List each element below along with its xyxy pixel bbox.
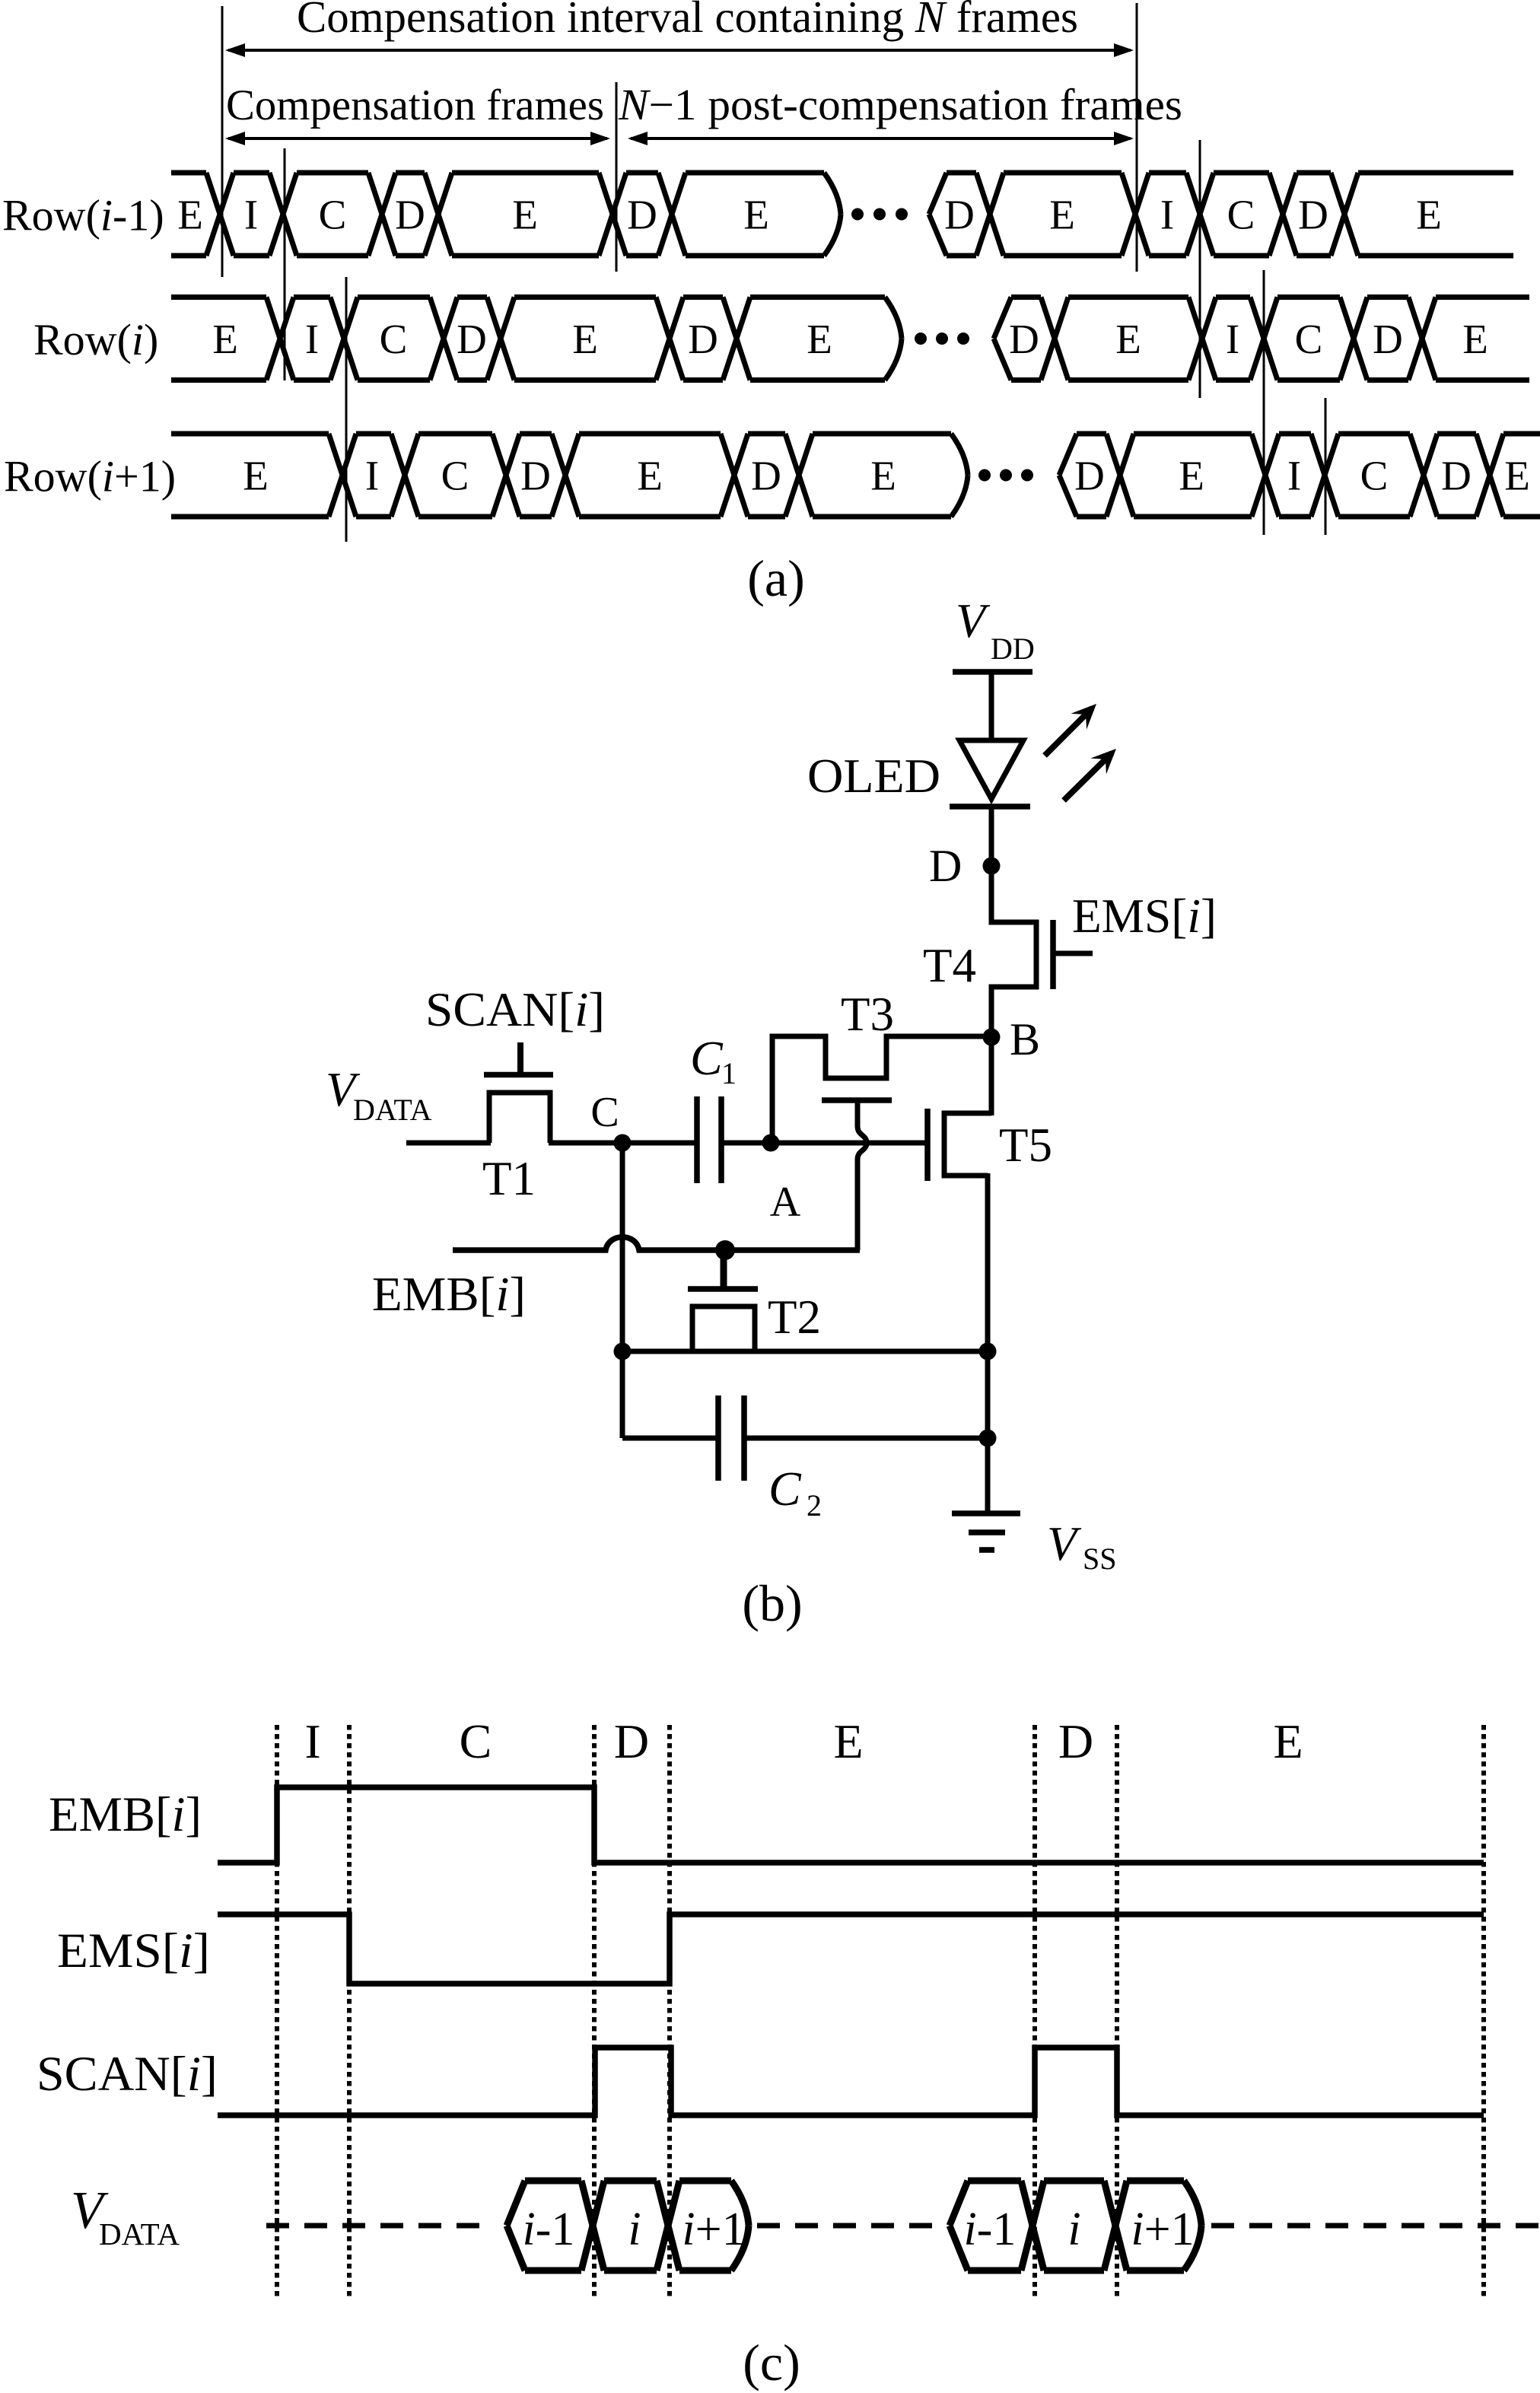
svg-text:EMS[i]: EMS[i] (57, 1924, 210, 1978)
svg-text:D: D (944, 192, 975, 238)
svg-text:T2: T2 (768, 1290, 821, 1344)
svg-text:DD: DD (991, 632, 1035, 666)
svg-text:I: I (1287, 453, 1301, 499)
svg-text:E: E (512, 192, 538, 238)
svg-text:I: I (365, 453, 379, 499)
svg-text:D: D (1298, 192, 1328, 238)
svg-text:C: C (768, 1462, 802, 1516)
svg-text:E: E (1416, 192, 1442, 238)
svg-text:D: D (520, 453, 551, 499)
svg-text:T5: T5 (999, 1119, 1052, 1172)
svg-text:(b): (b) (742, 1574, 802, 1632)
svg-text:C: C (380, 316, 408, 362)
svg-text:D: D (1058, 1714, 1093, 1768)
svg-text:D: D (614, 1714, 649, 1768)
svg-text:T4: T4 (923, 939, 976, 992)
svg-text:i-1: i-1 (523, 2204, 575, 2255)
svg-text:E: E (743, 192, 769, 238)
svg-text:I: I (244, 192, 258, 238)
svg-text:EMB[i]: EMB[i] (372, 1267, 526, 1321)
svg-text:E: E (637, 453, 663, 499)
svg-text:D: D (457, 316, 487, 362)
svg-text:I: I (1226, 316, 1239, 362)
svg-text:SCAN[i]: SCAN[i] (425, 982, 605, 1036)
svg-text:SS: SS (1083, 1542, 1117, 1576)
svg-text:i: i (1067, 2204, 1080, 2255)
svg-text:E: E (243, 453, 269, 499)
svg-text:E: E (1504, 453, 1530, 499)
svg-text:E: E (177, 192, 203, 238)
svg-text:A: A (770, 1179, 801, 1226)
svg-text:i: i (628, 2204, 641, 2255)
svg-text:D: D (627, 192, 657, 238)
svg-text:E: E (1462, 316, 1488, 362)
svg-text:E: E (1273, 1714, 1303, 1768)
svg-text:I: I (305, 316, 319, 362)
svg-text:i-1: i-1 (964, 2204, 1017, 2255)
svg-text:C: C (441, 453, 469, 499)
svg-text:E: E (572, 316, 598, 362)
svg-text:C: C (319, 192, 347, 238)
svg-text:DATA: DATA (99, 2216, 180, 2251)
svg-text:SCAN[i]: SCAN[i] (37, 2047, 218, 2102)
svg-text:I: I (1160, 192, 1174, 238)
svg-text:Row(i): Row(i) (33, 315, 158, 364)
svg-text:D: D (1441, 453, 1472, 499)
svg-text:E: E (212, 316, 238, 362)
svg-text:D: D (1009, 316, 1039, 362)
svg-text:Compensation interval containi: Compensation interval containing N frame… (297, 0, 1078, 42)
svg-text:(a): (a) (747, 549, 804, 607)
svg-text:E: E (1049, 192, 1075, 238)
svg-text:E: E (1115, 316, 1141, 362)
svg-text:E: E (870, 453, 896, 499)
svg-text:EMB[i]: EMB[i] (49, 1787, 202, 1842)
svg-text:N−1 post-compensation frames: N−1 post-compensation frames (618, 80, 1182, 129)
svg-text:C: C (1227, 192, 1255, 238)
svg-text:T3: T3 (841, 988, 894, 1041)
svg-text:C: C (1295, 316, 1323, 362)
svg-text:(c): (c) (743, 2334, 800, 2391)
svg-text:Compensation frames: Compensation frames (226, 81, 604, 129)
svg-text:C: C (590, 1089, 619, 1136)
svg-text:C: C (1360, 453, 1389, 499)
svg-text:i+1: i+1 (682, 2204, 745, 2255)
svg-text:2: 2 (807, 1488, 822, 1523)
svg-text:E: E (807, 316, 832, 362)
svg-text:D: D (1373, 316, 1403, 362)
svg-text:D: D (751, 453, 781, 499)
svg-text:I: I (304, 1714, 320, 1768)
svg-text:D: D (929, 841, 962, 891)
svg-text:DATA: DATA (353, 1093, 432, 1127)
svg-text:Row(i+1): Row(i+1) (4, 452, 176, 501)
svg-text:OLED: OLED (807, 749, 940, 803)
svg-text:E: E (833, 1714, 863, 1768)
svg-text:i+1: i+1 (1131, 2204, 1194, 2255)
svg-text:T1: T1 (482, 1152, 536, 1205)
svg-text:D: D (688, 316, 718, 362)
svg-text:EMS[i]: EMS[i] (1072, 889, 1217, 943)
svg-text:Row(i-1): Row(i-1) (2, 191, 164, 240)
svg-text:B: B (1010, 1014, 1040, 1064)
svg-text:E: E (1179, 453, 1204, 499)
svg-text:C: C (690, 1031, 724, 1085)
svg-text:C: C (460, 1714, 492, 1768)
svg-text:1: 1 (721, 1056, 737, 1090)
svg-text:D: D (395, 192, 425, 238)
svg-text:D: D (1074, 453, 1105, 499)
